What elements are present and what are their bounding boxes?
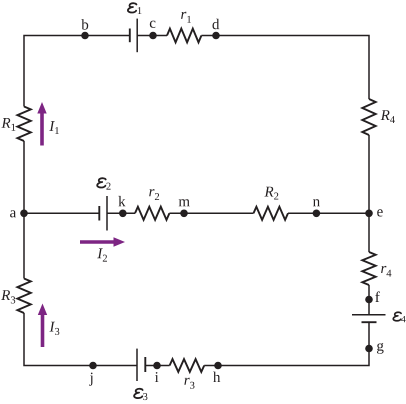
node a junction dot [20,210,28,218]
resistor R1 [17,107,30,142]
resistor r4 [362,252,375,285]
EMF E3 script label [134,389,143,398]
EMF E3 label subscript 3 [143,393,147,400]
node f label [375,291,380,302]
current arrow I3 [38,304,47,348]
current I2 label [97,248,107,261]
node b label [81,19,88,30]
current I3 label [49,322,59,335]
wire left: R1 to node a to R3 [23,141,25,279]
wire bottom: battery E3 to resistor r3 [145,365,169,367]
node k label [118,196,125,206]
EMF E4 script label [393,312,401,321]
wire middle: resistor R2 to node e [288,212,369,214]
EMF E2 label subscript 2 [106,183,110,190]
node i label [155,372,159,382]
resistor r2 [135,207,169,220]
node d label [213,19,220,30]
current I1 label [49,121,59,134]
EMF E2 script label [97,178,106,187]
node a label [10,210,16,217]
node c label [150,21,156,28]
node j junction dot [89,362,97,370]
battery E3 long (positive) plate [136,349,138,381]
battery E2 long (positive) plate [106,196,108,231]
wire left: R3 to bottom-left corner to battery E3 [24,313,137,366]
resistor r1 value label [181,12,191,23]
resistor r3 [170,359,205,372]
node n label [313,199,320,206]
node m label [179,199,190,206]
node h junction dot [214,362,222,370]
battery E1 short (negative) plate [129,29,131,43]
resistor R2 [254,207,289,220]
node e label [377,209,383,216]
battery E2 short (negative) plate [98,206,100,221]
battery E4 short (negative) plate [362,321,377,323]
node i junction dot [153,362,161,370]
resistor R4 [362,99,375,135]
wire middle: node a to battery E2 [24,212,99,214]
node h label [213,372,220,382]
node e junction dot [365,210,373,218]
resistor R1 value label [1,118,15,131]
EMF E4 label subscript 4 [401,316,405,322]
current arrow I1 [37,102,46,146]
wire middle: battery E2 to resistor r2 [107,212,135,214]
wire bottom: resistor r3 to bottom-right corner up to node g [204,322,369,365]
resistor r1 [167,29,201,43]
resistor R2 value label [264,187,278,200]
node c junction dot [149,32,157,40]
node d junction dot [212,32,220,40]
node g label [377,343,384,354]
wire top: battery E1 to resistor r1 [137,35,167,37]
wire right: R4 to r4 [368,135,370,252]
wire top: left corner to battery E1 [24,36,130,107]
wire right: r4 to battery E4 [368,285,370,315]
node n junction dot [313,210,321,218]
resistor R3 value label [1,290,15,303]
wire middle: resistor r2 to resistor R2 [169,212,253,214]
node g junction dot [365,345,373,353]
current arrow I2 [80,237,125,246]
battery E1 long (positive) plate [136,19,138,53]
battery E4 long (positive) plate [352,314,386,316]
node k junction dot [119,210,127,218]
wire top: resistor r1 to top-right corner down to R4 [201,36,369,100]
node b junction dot [81,32,89,40]
resistor r4 value label [381,266,391,277]
node f junction dot [365,296,373,304]
resistor R4 value label [381,110,395,123]
resistor r3 value label [184,378,194,389]
resistor R3 [17,279,30,314]
node j label [89,373,92,386]
EMF E1 label subscript 1 [138,7,142,14]
EMF E1 script label [128,3,136,12]
battery E3 short (negative) plate [144,357,146,372]
node m junction dot [180,210,188,218]
resistor r2 value label [149,189,159,200]
